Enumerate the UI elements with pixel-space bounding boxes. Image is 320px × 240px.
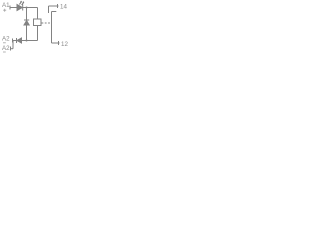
svg-text:14: 14 <box>60 4 67 11</box>
wire corner down to coil <box>37 8 39 20</box>
svg-text:A2: A2 <box>2 45 10 52</box>
terminal 12 label <box>61 41 68 48</box>
freewheeling diode V1 cathode bar <box>24 19 29 21</box>
terminal tick A2 upper <box>12 39 14 43</box>
dashed actuator link coil to contact <box>42 22 51 24</box>
LED D1 triangle <box>17 5 22 11</box>
node junction bottom <box>26 40 28 42</box>
LED D1 cathode bar <box>22 5 24 11</box>
minus polarity mark under A2 upper <box>3 42 6 44</box>
wire A2 lower riser to rail <box>12 41 14 49</box>
series diode V2 cathode bar <box>16 38 18 43</box>
svg-text:A1: A1 <box>2 2 10 9</box>
terminal tick 14 <box>57 4 59 8</box>
node junction top <box>26 7 28 9</box>
wire A1 to corner <box>10 7 38 9</box>
wire A2 lower stub <box>11 48 14 50</box>
terminal A2 upper label <box>2 36 10 43</box>
minus polarity mark under A2 lower <box>3 51 6 53</box>
svg-text:A2: A2 <box>2 36 10 43</box>
terminal 14 label <box>60 4 67 11</box>
wire terminal 12 <box>52 42 60 44</box>
wire terminal 14 <box>49 5 59 7</box>
LED light arrows <box>19 1 24 5</box>
relay coil K1 box <box>34 19 42 26</box>
plus polarity mark under A1 <box>3 9 6 12</box>
terminal tick 12 <box>58 41 60 45</box>
wire coil bottom to rail <box>37 26 39 41</box>
terminal A2 lower label <box>2 45 10 52</box>
series diode V2 triangle (points left) <box>17 38 22 43</box>
svg-text:12: 12 <box>61 41 68 48</box>
moving contact arm bar <box>52 11 57 13</box>
terminal tick A2 lower <box>10 47 12 51</box>
moving contact arm / common conductor <box>51 12 53 44</box>
freewheeling diode V1 triangle (points up) <box>24 21 29 25</box>
terminal A1 label <box>2 2 10 9</box>
bottom rail wire to A2 <box>12 40 38 42</box>
wire branch down from node <box>26 8 28 21</box>
terminal tick A1 <box>9 6 11 10</box>
wire diode to bottom rail <box>26 25 28 41</box>
fixed NO contact from 14 <box>48 6 50 13</box>
